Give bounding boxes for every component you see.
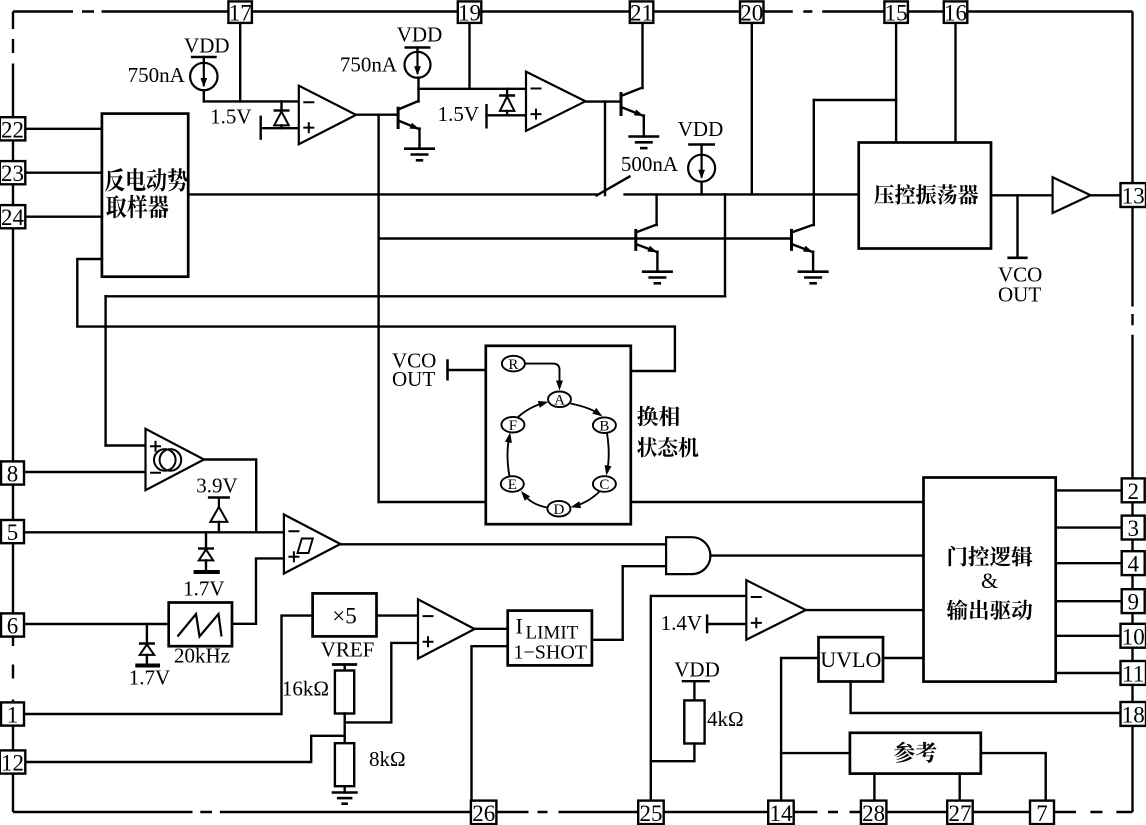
node state C	[593, 476, 616, 493]
svg-text:OUT: OUT	[998, 283, 1041, 307]
label state machine (换相状态机)	[637, 406, 698, 458]
wire gate logic to pin9	[1056, 600, 1122, 602]
ground Q4	[798, 272, 829, 284]
svg-text:24: 24	[1, 205, 25, 230]
svg-text:15: 15	[885, 1, 908, 26]
wire pin14 branch to reference	[781, 752, 850, 754]
wire pin8 to U6 minus input	[23, 471, 145, 473]
wire pin12 to divider tap	[26, 736, 345, 762]
wire divider tap to U8 plus input	[345, 643, 418, 743]
wire main line right of switch	[625, 193, 859, 195]
wire gate logic to pin4	[1056, 562, 1122, 564]
pin 16	[944, 1, 968, 26]
node 1.4V reference tick	[661, 611, 708, 635]
ground R2	[332, 793, 358, 804]
node VCO OUT tick right	[998, 195, 1042, 306]
wire R3 to pin25 net	[651, 744, 695, 762]
wire pin15 to VCO	[895, 23, 897, 142]
block U15 gate logic and output drive	[924, 478, 1056, 682]
current source I3 500nA	[621, 145, 715, 182]
wire I3 to main line	[700, 182, 702, 195]
svg-text:1.5V: 1.5V	[210, 105, 251, 129]
svg-text:500nA: 500nA	[621, 152, 679, 176]
wire pin6 to oscillator	[23, 623, 168, 625]
wire state machine output up	[77, 259, 675, 371]
diode D4 1.7V reference	[183, 532, 224, 600]
switch S1	[597, 177, 630, 196]
wire state A to B	[571, 404, 603, 417]
svg-text:2: 2	[1127, 479, 1139, 504]
node state E	[501, 476, 524, 493]
wire U8 output to one-shot	[475, 628, 508, 630]
pin 15	[884, 1, 908, 26]
block U9 ILIMIT 1-SHOT	[508, 611, 592, 666]
svg-text:19: 19	[458, 1, 481, 26]
wire feedback horizontal	[106, 295, 725, 297]
diode D3 3.9V	[196, 474, 237, 533]
pin 19	[458, 1, 482, 26]
block U14 commutation state machine	[486, 346, 631, 524]
svg-text:×5: ×5	[332, 604, 356, 629]
wire Q3 collector to main line	[655, 194, 657, 225]
node state F	[501, 417, 524, 434]
wire pin15 branch horizontal	[814, 99, 896, 101]
node state D	[547, 501, 570, 518]
pin 7	[1030, 801, 1054, 825]
pin 1	[1, 702, 24, 727]
svg-text:VREF: VREF	[321, 638, 375, 662]
svg-text:VDD: VDD	[678, 117, 724, 141]
wire state R to A	[525, 364, 563, 391]
pin 23	[0, 161, 25, 186]
wire I1 to minus rail	[203, 90, 205, 101]
wire pin26 to one-shot	[472, 646, 508, 801]
wire pin1 to x5 amplifier	[23, 616, 312, 714]
wire VCO output	[991, 194, 1053, 196]
wire reference to pin27	[959, 774, 961, 801]
oscillator sawtooth 20kHz	[169, 603, 232, 668]
pin 4	[1122, 551, 1145, 577]
svg-text:A: A	[554, 393, 565, 409]
wire minus rail op-amp U3	[419, 88, 527, 90]
wire UVLO to gate logic	[883, 657, 924, 659]
pin 5	[1, 520, 24, 545]
svg-text:1.7V: 1.7V	[183, 577, 224, 601]
wire one-shot output to AND gate	[592, 566, 666, 640]
svg-text:8kΩ: 8kΩ	[369, 747, 406, 771]
wire Q4 emitter down	[812, 252, 814, 272]
wire gate logic to pin11	[1056, 672, 1122, 674]
wire R2 to ground	[344, 786, 346, 792]
wire pin19 down	[468, 23, 470, 89]
wire state machine to gate logic	[631, 501, 924, 503]
wire U2 output to Q1 base	[356, 113, 398, 115]
wire Q2 emitter down	[643, 116, 645, 137]
wire U2 output bus down to state machine	[377, 115, 379, 502]
wire state D to E	[521, 491, 547, 508]
node 1.5V reference tick U3	[438, 102, 487, 129]
node VREF	[321, 638, 375, 665]
wire pin16 to VCO	[954, 23, 956, 142]
svg-text:12: 12	[1, 751, 24, 776]
ground Q2	[628, 137, 659, 149]
svg-text:D: D	[553, 502, 564, 518]
wire buffer to pin13	[1091, 194, 1122, 196]
node VCO OUT input tick left	[392, 349, 448, 392]
svg-text:4kΩ: 4kΩ	[707, 707, 744, 731]
wire U7 output to AND gate	[340, 543, 666, 545]
wire AND output to gate logic	[711, 554, 924, 556]
pin 14	[768, 801, 794, 825]
svg-text:VDD: VDD	[674, 658, 720, 682]
pin 18	[1121, 702, 1146, 728]
power VDD rail 1	[184, 34, 230, 58]
svg-text:23: 23	[1, 161, 24, 186]
comparator U6	[146, 429, 205, 490]
svg-text:750nA: 750nA	[128, 63, 186, 87]
svg-text:E: E	[508, 477, 517, 493]
svg-text:18: 18	[1122, 703, 1145, 728]
svg-text:UVLO: UVLO	[820, 647, 881, 672]
pin 13	[1121, 183, 1146, 208]
wire pin23 to sampler	[23, 171, 102, 173]
pin 24	[0, 205, 25, 230]
diode D1 1.5V clamp	[274, 101, 290, 128]
wire Q3 emitter down	[656, 252, 658, 272]
wire U3 output to Q2 base	[585, 100, 621, 102]
block U4 VCO (压控振荡器)	[859, 143, 991, 249]
pin 17	[228, 1, 252, 26]
svg-text:16: 16	[944, 1, 967, 26]
svg-text:750nA: 750nA	[340, 53, 398, 77]
svg-text:21: 21	[630, 1, 653, 26]
block U1 back-EMF sampler (反电动势取样器)	[102, 114, 188, 277]
svg-text:F: F	[509, 418, 517, 434]
wire gate logic to pin3	[1056, 526, 1122, 528]
svg-text:9: 9	[1127, 590, 1139, 615]
node state A	[548, 392, 571, 409]
svg-text:4: 4	[1127, 552, 1139, 577]
wire state F to A	[518, 401, 549, 417]
wire state E to F	[505, 433, 512, 477]
pin 25	[638, 801, 664, 825]
svg-text:20kHz: 20kHz	[174, 644, 230, 668]
ground Q3	[642, 272, 673, 284]
buffer U5	[1053, 177, 1091, 213]
svg-text:VDD: VDD	[397, 23, 443, 47]
svg-text:25: 25	[640, 801, 663, 825]
resistor R2 8k	[335, 743, 406, 786]
pin 2	[1122, 478, 1145, 504]
comparator U11	[746, 580, 806, 640]
power VDD rail 2	[397, 23, 443, 48]
wire U3 output down to switch	[604, 102, 606, 195]
power VDD rail 3	[678, 117, 724, 145]
svg-text:3: 3	[1127, 516, 1139, 541]
wire pin22 to sampler	[23, 128, 102, 130]
wire gate logic to pin2	[1056, 489, 1122, 491]
svg-text:&: &	[981, 568, 998, 593]
wire oscillator output to U7 plus input	[232, 558, 284, 623]
svg-text:27: 27	[949, 801, 972, 825]
svg-text:LIMIT: LIMIT	[526, 623, 579, 644]
wire reference to pin28	[873, 774, 875, 801]
svg-text:17: 17	[229, 1, 252, 26]
svg-text:VDD: VDD	[184, 34, 230, 58]
svg-text:C: C	[599, 477, 609, 493]
current source I2 750nA	[340, 48, 431, 78]
diode D5 1.7V reference	[129, 624, 170, 690]
wire pin25 to U11 minus input	[651, 596, 747, 801]
pin 8	[1, 461, 24, 486]
wire VCO OUT tick into state machine	[448, 369, 486, 371]
svg-text:R: R	[508, 357, 518, 373]
svg-text:6: 6	[7, 614, 19, 639]
node 1.5V reference tick U2	[210, 105, 261, 140]
node state B	[593, 417, 616, 434]
svg-text:1.7V: 1.7V	[129, 666, 170, 690]
pin 6	[1, 613, 24, 638]
wire plus rail op-amp U3	[487, 114, 527, 116]
wire reference to pin7	[981, 753, 1046, 801]
svg-text:10: 10	[1122, 624, 1145, 649]
wire pin14 up to UVLO	[781, 658, 818, 801]
pin 22	[0, 117, 25, 142]
svg-text:13: 13	[1122, 184, 1145, 209]
pin 12	[0, 750, 25, 775]
comparator U8 current limit	[418, 599, 475, 658]
node state R	[502, 356, 525, 373]
wire U2 bus into state machine	[379, 501, 486, 503]
wire feedback down to U6 plus input	[104, 296, 106, 445]
resistor R1 16k	[282, 665, 354, 714]
svg-text:26: 26	[472, 801, 495, 825]
wire pin5 to U7 minus input	[23, 531, 284, 533]
svg-text:14: 14	[770, 801, 794, 825]
pin 9	[1122, 589, 1145, 615]
svg-text:28: 28	[862, 801, 885, 825]
svg-text:1.4V: 1.4V	[661, 611, 702, 635]
svg-text:I: I	[516, 614, 523, 639]
comparator U7 hysteresis	[284, 515, 341, 574]
svg-text:3.9V: 3.9V	[196, 474, 237, 498]
power VDD rail 4	[674, 658, 720, 682]
svg-text:8: 8	[7, 462, 19, 487]
wire U6 output	[204, 460, 256, 533]
wire Q4 collector up to pin15 branch	[813, 100, 815, 225]
wire state C to D	[571, 492, 600, 509]
svg-text:OUT: OUT	[392, 367, 435, 391]
current source I1 750nA	[128, 57, 218, 90]
pin 27	[947, 801, 973, 825]
wire pin17 down to comparator rail	[239, 23, 241, 102]
svg-text:16kΩ: 16kΩ	[282, 677, 329, 701]
wire base line from node B to Qa and Qb	[381, 237, 792, 239]
wire Q1 collector up	[417, 78, 419, 102]
transistor Q4	[792, 225, 814, 253]
wire plus rail op-amp U2	[261, 127, 299, 129]
wire 1.4V tick to U11 plus input	[707, 623, 746, 625]
svg-text:20: 20	[740, 1, 763, 26]
wire x5 output to U8 minus input	[377, 614, 419, 616]
pin 3	[1122, 516, 1145, 542]
wire Q2 collector to pin21	[641, 24, 643, 88]
wire U11 output to gate logic	[806, 609, 924, 611]
wire feedback main line down	[724, 194, 726, 296]
AND gate U10	[666, 537, 710, 574]
op-amp U3	[526, 72, 585, 131]
svg-text:1.5V: 1.5V	[438, 102, 479, 126]
wire pin20 down to main line	[751, 23, 753, 194]
block U13 reference (参考)	[850, 733, 981, 774]
svg-text:22: 22	[1, 117, 24, 142]
diode D2 1.5V clamp	[499, 89, 515, 116]
svg-text:7: 7	[1036, 801, 1048, 825]
wire state B to C	[605, 434, 612, 476]
pin 20	[740, 1, 764, 26]
transistor Q3	[636, 225, 658, 253]
wire minus rail op-amp U2	[204, 100, 299, 102]
svg-text:B: B	[599, 418, 609, 434]
wire pin24 to sampler	[23, 215, 102, 217]
transistor Q2	[621, 88, 644, 117]
pin 21	[630, 1, 654, 26]
pin 28	[861, 801, 887, 825]
wire UVLO to pin18	[851, 682, 1122, 714]
wire Q1 emitter down	[418, 129, 420, 149]
op-amp U2	[299, 86, 356, 145]
block U12 UVLO	[819, 637, 884, 681]
ground Q1	[404, 149, 435, 161]
wire into U6 plus input	[106, 444, 146, 446]
pin 11	[1121, 661, 1146, 687]
pin 26	[471, 801, 497, 825]
svg-text:5: 5	[7, 520, 19, 545]
resistor R3 4k	[684, 681, 743, 743]
svg-text:1−SHOT: 1−SHOT	[514, 642, 588, 664]
svg-text:1: 1	[7, 703, 19, 728]
wire sampler output main line	[188, 193, 596, 195]
transistor Q1	[398, 101, 419, 129]
svg-text:11: 11	[1122, 662, 1144, 687]
pin 10	[1121, 624, 1146, 650]
amplifier x5	[313, 593, 377, 636]
wire gate logic to pin10	[1056, 635, 1122, 637]
